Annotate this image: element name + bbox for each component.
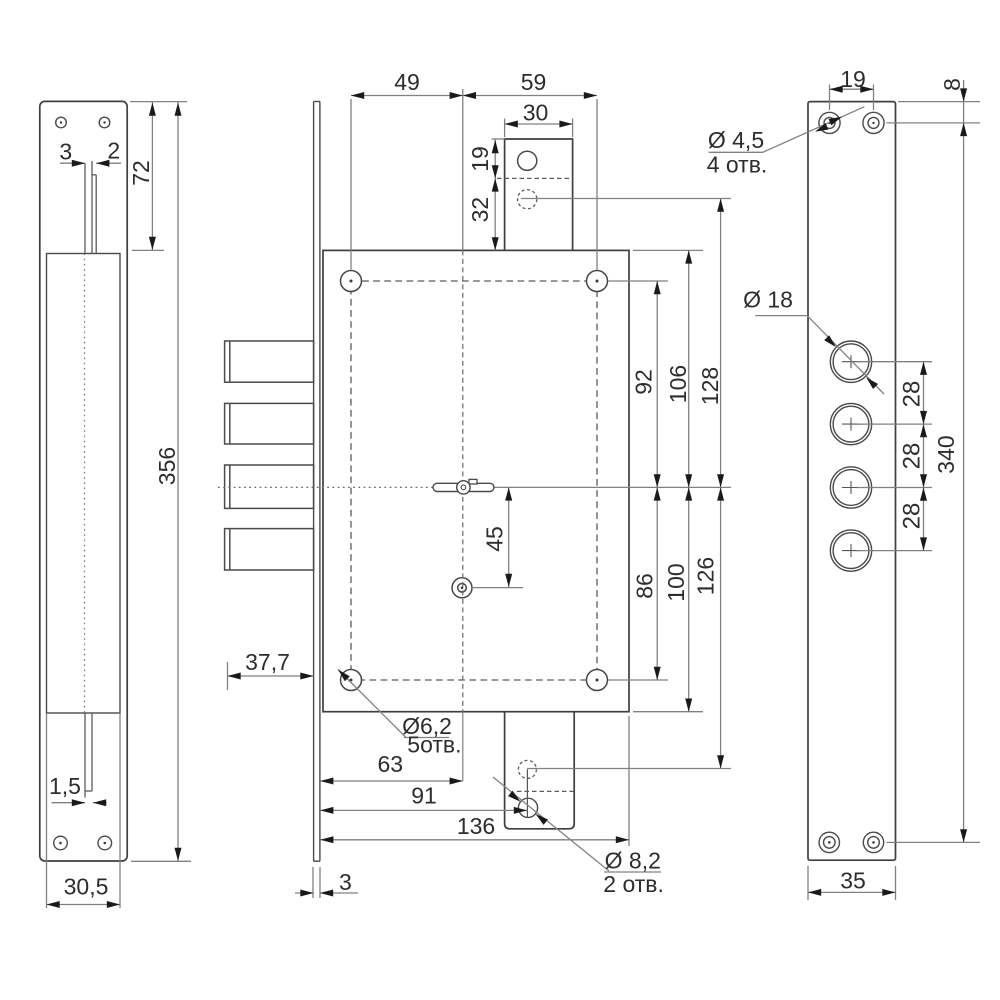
svg-text:1,5: 1,5 <box>49 773 81 799</box>
svg-text:126: 126 <box>692 557 718 595</box>
svg-text:2: 2 <box>107 138 120 164</box>
svg-text:8: 8 <box>939 78 965 91</box>
svg-text:356: 356 <box>154 447 180 485</box>
svg-text:92: 92 <box>631 369 657 395</box>
svg-text:340: 340 <box>933 435 959 473</box>
svg-text:91: 91 <box>411 783 437 809</box>
svg-text:72: 72 <box>128 160 154 186</box>
svg-text:136: 136 <box>457 813 495 839</box>
svg-text:128: 128 <box>697 367 723 405</box>
svg-text:2 отв.: 2 отв. <box>603 871 664 897</box>
svg-text:63: 63 <box>378 751 404 777</box>
svg-text:106: 106 <box>665 365 691 403</box>
svg-text:19: 19 <box>840 66 866 92</box>
svg-text:49: 49 <box>394 69 420 95</box>
svg-text:5отв.: 5отв. <box>407 732 461 758</box>
svg-text:35: 35 <box>840 868 866 894</box>
svg-text:Ø 4,5: Ø 4,5 <box>708 127 764 153</box>
svg-text:37,7: 37,7 <box>245 649 290 675</box>
svg-text:32: 32 <box>467 197 493 223</box>
svg-text:3: 3 <box>59 139 72 165</box>
svg-text:30: 30 <box>523 100 549 126</box>
svg-text:19: 19 <box>467 146 493 172</box>
svg-text:4 отв.: 4 отв. <box>707 152 768 178</box>
svg-text:Ø 8,2: Ø 8,2 <box>605 848 661 874</box>
svg-text:28: 28 <box>899 381 926 408</box>
svg-text:45: 45 <box>482 526 508 552</box>
svg-text:86: 86 <box>631 573 657 599</box>
svg-text:28: 28 <box>899 443 926 470</box>
svg-text:30,5: 30,5 <box>64 874 109 900</box>
svg-text:100: 100 <box>663 563 689 601</box>
svg-text:3: 3 <box>339 869 352 895</box>
svg-text:Ø 18: Ø 18 <box>743 287 793 313</box>
svg-text:28: 28 <box>899 503 926 530</box>
svg-text:59: 59 <box>521 69 547 95</box>
